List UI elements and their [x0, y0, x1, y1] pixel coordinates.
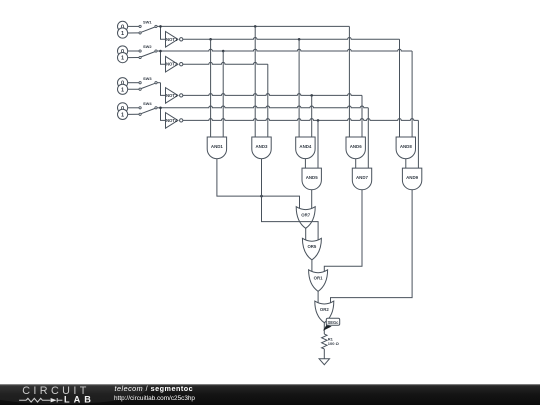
- logic source 0 for SW1: [118, 21, 128, 31]
- wire bus NOT3 output (row F): [183, 94, 362, 96]
- junction row B to AND1 left drop: [209, 38, 212, 41]
- svg-text:AND8: AND8: [400, 144, 413, 149]
- svg-text:SW1: SW1: [143, 20, 152, 25]
- svg-text:1: 1: [121, 31, 124, 37]
- svg-text:SW4: SW4: [143, 101, 152, 106]
- junction row H to AND5 right drop: [317, 119, 320, 122]
- OR gate OR5: [302, 238, 321, 260]
- AND gate AND4: [296, 137, 315, 159]
- svg-text:AND6: AND6: [350, 144, 363, 149]
- svg-text:AND5: AND5: [306, 175, 319, 180]
- wire source0 to SW3 top contact: [128, 82, 140, 84]
- junction SW1 node: [159, 25, 162, 28]
- AND gate AND1: [207, 137, 226, 159]
- junction row F to AND4 right drop: [310, 94, 313, 97]
- wire AND6 output to AND7 left input: [355, 159, 357, 168]
- wire SW2 common to node: [157, 50, 160, 52]
- AND gate AND6: [346, 137, 365, 159]
- wire row B to AND1 left: [210, 39, 212, 137]
- NOT gate NOT2: [166, 56, 178, 72]
- wire AND8 output to AND9 left input: [405, 159, 407, 168]
- logic source 0 for SW3: [118, 78, 128, 88]
- AND gate AND8: [396, 137, 415, 159]
- junction row A to AND3 left drop: [254, 25, 257, 28]
- wire AND9 output to OR2 right input: [331, 190, 413, 303]
- wire source1 to SW3 bottom contact: [128, 88, 140, 90]
- wire source0 to SW2 top contact: [128, 50, 140, 52]
- svg-text:LAB: LAB: [64, 395, 95, 405]
- NOT gate NOT3: [166, 88, 178, 104]
- wire row A to AND6 left: [348, 26, 350, 137]
- wire bus SW2 output (row C): [161, 49, 413, 51]
- svg-text:AND9: AND9: [406, 175, 419, 180]
- switch SW1: [139, 25, 141, 27]
- ground: [319, 359, 329, 365]
- logic source 0 for SW2: [118, 46, 128, 56]
- wire bus NOT2 output (row D): [183, 62, 268, 64]
- wire OR5 output to OR1 left input: [311, 260, 313, 272]
- wire source1 to SW2 bottom contact: [128, 57, 140, 59]
- wire AND7 output to OR1 right input: [324, 190, 362, 272]
- wire AND4 output to AND5 left input: [304, 159, 306, 168]
- svg-text:AND7: AND7: [356, 175, 369, 180]
- wire row H to AND5 right: [317, 120, 319, 168]
- wire source0 to SW4 top contact: [128, 107, 140, 109]
- wire row H to AND9 right: [417, 120, 419, 168]
- wire row D to AND3 right: [267, 64, 269, 137]
- logic source 1 for SW2: [118, 53, 128, 63]
- svg-text:SEGc: SEGc: [328, 320, 340, 325]
- svg-text:1: 1: [121, 56, 124, 62]
- NOT gate NOT4: [166, 113, 178, 129]
- OR gate OR2: [315, 301, 334, 323]
- svg-text:NOT2: NOT2: [166, 62, 178, 67]
- wire AND5 output to OR7 right input: [311, 190, 313, 209]
- wire bus NOT4 output (row H): [183, 119, 419, 121]
- wire node to NOT1 input: [161, 26, 166, 39]
- svg-text:SW2: SW2: [143, 44, 152, 49]
- OR gate OR1: [309, 270, 328, 292]
- OR gate OR7: [296, 207, 315, 229]
- wire row C to AND8 right: [411, 51, 413, 137]
- svg-text:AND4: AND4: [299, 144, 312, 149]
- wire row F to AND4 right: [311, 95, 313, 137]
- switch SW4: [139, 107, 141, 109]
- AND gate AND3: [252, 137, 271, 159]
- junction SW2 node: [159, 50, 162, 53]
- wire node to NOT2 input: [161, 51, 166, 64]
- wire OR2 output to resistor R1: [323, 323, 325, 334]
- wire bus NOT1 output (row B): [183, 37, 400, 39]
- wire row A to AND3 left: [254, 26, 256, 137]
- wire row F to AND6 right: [361, 95, 363, 137]
- junction AND3 drop on AND1-OR7 wire: [260, 195, 263, 198]
- resistor R1 100 Ohm: [322, 334, 327, 349]
- svg-text:1: 1: [121, 112, 124, 118]
- switch SW2: [139, 50, 141, 52]
- svg-text:OR1: OR1: [314, 276, 323, 281]
- junction SW4 node: [159, 107, 162, 110]
- svg-text:AND1: AND1: [211, 144, 224, 149]
- wire AND3 output to OR5 right input: [262, 159, 319, 240]
- wire R1 to ground: [323, 349, 325, 359]
- wire SW3 common to node: [157, 82, 160, 84]
- switch SW3: [139, 82, 141, 84]
- logic source 1 for SW4: [118, 109, 128, 119]
- svg-text:OR5: OR5: [307, 244, 316, 249]
- wire source1 to SW1 bottom contact: [128, 32, 140, 34]
- wire AND1 output to OR7 left input: [217, 159, 300, 209]
- svg-text:NOT1: NOT1: [166, 37, 178, 42]
- wire row C to AND1 right: [222, 51, 224, 137]
- svg-text:SW3: SW3: [143, 76, 152, 81]
- wire source0 to SW1 top contact: [128, 25, 140, 27]
- logic source 1 for SW3: [118, 84, 128, 94]
- wire source1 to SW4 bottom contact: [128, 113, 140, 115]
- wire row G to AND7 right: [367, 108, 369, 168]
- wire row B to AND8 left: [399, 39, 401, 137]
- wire OR7 output to OR5 left input: [305, 228, 307, 240]
- wire row B to AND4 left: [298, 39, 300, 137]
- wire SW4 common to node: [157, 107, 160, 109]
- CircuitLab logo: [0, 376, 145, 404]
- wire bus SW4 output (row G): [161, 106, 369, 108]
- svg-text:telecom / segmentoc: telecom / segmentoc: [115, 384, 194, 393]
- svg-text:1: 1: [121, 87, 124, 93]
- svg-text:NOT3: NOT3: [166, 93, 178, 98]
- AND gate AND5: [302, 168, 321, 190]
- AND gate AND7: [352, 168, 371, 190]
- junction row B to AND4 left drop: [298, 38, 301, 41]
- svg-text:AND3: AND3: [256, 144, 269, 149]
- wire bus SW1 output (row A): [161, 25, 350, 27]
- logic source 0 for SW4: [118, 103, 128, 113]
- wire node to NOT3 input: [161, 83, 166, 96]
- wire SW1 common to node: [157, 25, 160, 27]
- svg-text:http://circuitlab.com/c25c3hp: http://circuitlab.com/c25c3hp: [114, 395, 195, 402]
- svg-text:100 Ω: 100 Ω: [328, 341, 340, 346]
- junction row C to AND1 right drop: [222, 50, 225, 53]
- net flag SEGc: [323, 325, 332, 331]
- AND gate AND9: [402, 168, 421, 190]
- svg-text:OR7: OR7: [301, 213, 310, 218]
- wire node to NOT4 input: [161, 108, 166, 121]
- svg-text:NOT4: NOT4: [166, 118, 178, 123]
- logic source 1 for SW1: [118, 28, 128, 38]
- NOT gate NOT1: [166, 32, 178, 48]
- svg-text:OR2: OR2: [320, 307, 329, 312]
- wire OR1 output to OR2 left input: [317, 291, 319, 303]
